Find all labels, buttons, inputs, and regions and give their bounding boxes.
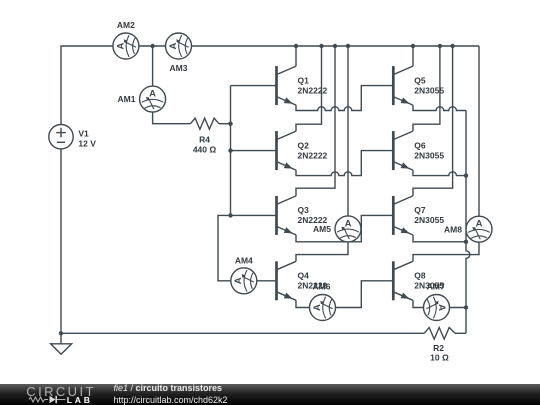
- wire: AM2 to AM3: [139, 45, 166, 47]
- ammeter AM6: [310, 295, 336, 321]
- node: base bus at Q2 base: [228, 148, 232, 152]
- transistor Q6: [393, 131, 413, 170]
- svg-text:AM2: AM2: [117, 20, 135, 30]
- wire: top supply rail from AM3 to right end: [191, 45, 479, 47]
- svg-text:LAB: LAB: [67, 395, 93, 405]
- footer title text: [114, 383, 223, 393]
- ammeter AM5: [335, 216, 361, 242]
- ammeter AM3: [166, 33, 192, 59]
- wire: Q6 emitter to emitter bus (hop over riser): [413, 170, 466, 176]
- wire: R2 right to emitter bus corner: [455, 332, 466, 334]
- ammeter AM8: [466, 216, 492, 242]
- svg-text:Q7: Q7: [414, 205, 426, 215]
- svg-text:12 V: 12 V: [78, 138, 96, 148]
- svg-text:AM7: AM7: [427, 282, 445, 292]
- wire: base bus vertical: [230, 86, 232, 216]
- wire: branch down from rail to AM1: [152, 46, 154, 86]
- wire: Q8 collector to AM8 bottom: [413, 242, 479, 261]
- ground symbol: [51, 344, 72, 355]
- node: rail junction Q5 collector: [411, 44, 415, 48]
- svg-text:Q6: Q6: [414, 140, 426, 150]
- svg-text:Q4: Q4: [298, 271, 310, 281]
- svg-text:440 Ω: 440 Ω: [193, 145, 217, 155]
- node: rail junction at AM1 branch: [150, 44, 154, 48]
- wire: Q2 collector riser to rail: [296, 46, 322, 131]
- ammeter AM2: [113, 33, 139, 59]
- wire: Q8 emitter to AM7 left: [413, 300, 424, 307]
- svg-text:Q2: Q2: [298, 140, 310, 150]
- svg-text:Q1: Q1: [298, 75, 310, 85]
- svg-text:10 Ω: 10 Ω: [430, 353, 449, 363]
- svg-text:2N2222: 2N2222: [298, 150, 328, 160]
- transistor Q8: [393, 261, 413, 300]
- node: emitter bus at Q7 emitter: [464, 240, 468, 244]
- node: rail junction Q1 collector: [294, 44, 298, 48]
- svg-text:AM6: AM6: [313, 282, 331, 292]
- svg-text:AM8: AM8: [444, 224, 462, 234]
- node: emitter bus at AM7: [464, 305, 468, 309]
- wire: Q3 collector riser to rail: [296, 46, 335, 196]
- svg-text:2N2222: 2N2222: [298, 85, 328, 95]
- wire: rail right end down to AM8 top: [478, 46, 480, 216]
- ammeter AM7: [424, 295, 450, 321]
- transistor Q1: [277, 66, 297, 105]
- svg-text:2N3055: 2N3055: [414, 215, 444, 225]
- svg-text:Q5: Q5: [414, 75, 426, 85]
- wire: Q1 collector to rail: [295, 46, 297, 66]
- CircuitLab logo: [0, 384, 110, 405]
- transistor Q5: [393, 66, 413, 105]
- transistor Q7: [393, 196, 413, 235]
- svg-text:R4: R4: [199, 135, 210, 145]
- wire: bus to Q1 base: [231, 85, 277, 87]
- wire: bus detour to AM4 left: [218, 215, 231, 280]
- svg-text:Q3: Q3: [298, 205, 310, 215]
- wire: AM4 right to Q4 base: [257, 280, 277, 282]
- wire: R4 right to base bus: [219, 123, 231, 125]
- node: rail junction Q3 riser: [333, 44, 337, 48]
- node: rail junction Q7 riser: [450, 44, 454, 48]
- svg-text:Q8: Q8: [414, 271, 426, 281]
- wire: Q7 collector riser to rail: [413, 46, 453, 196]
- wire: Q6 collector riser to rail: [413, 46, 440, 131]
- wire: rail riser down to AM5 top: [347, 46, 349, 216]
- wire: AM5 bottom to Q4 collector: [296, 242, 348, 261]
- node: ground junction: [59, 331, 63, 335]
- node: base bus at R4: [228, 122, 232, 126]
- footer bar: [0, 384, 540, 405]
- wire: ground stem: [60, 333, 62, 344]
- wire: AM6 right to Q8 base: [336, 281, 394, 308]
- wire: AM1 bottom to R4 left: [153, 112, 191, 124]
- wire: AM7 right to emitter bus: [450, 307, 467, 309]
- voltage source V1: [49, 125, 73, 149]
- svg-text:AM5: AM5: [313, 224, 331, 234]
- footer url text: [114, 395, 228, 405]
- ammeter AM1: [140, 86, 166, 112]
- node: emitter bus at Q6 emitter: [464, 173, 468, 177]
- wire: bus to Q2 base: [231, 150, 277, 152]
- svg-text:AM1: AM1: [118, 94, 136, 104]
- node: base bus at Q3 base: [228, 213, 232, 217]
- node: rail junction AM5 riser: [346, 44, 350, 48]
- resistor R2: [424, 328, 455, 340]
- ammeter AM4: [231, 268, 257, 294]
- wire: Q5 emitter to emitter bus (hops over two risers): [413, 105, 466, 110]
- wire: V1 bottom down to ground rail: [60, 149, 62, 333]
- wire: Q5 collector to rail: [412, 46, 414, 66]
- wire: emitter bus vertical (hops over Q8 collector wire) down to R2: [466, 111, 470, 334]
- wire: Q1 emitter to Q5 base (hops over three risers): [296, 86, 393, 111]
- wire: bus to Q3 base: [231, 214, 277, 216]
- transistor Q4: [277, 261, 297, 300]
- svg-text:AM3: AM3: [170, 63, 188, 73]
- wire: bottom ground rail: [61, 332, 424, 334]
- wire: V1 top up and right to AM2: [61, 46, 113, 125]
- wire: Q7 emitter to emitter bus: [413, 235, 466, 242]
- resistor R4: [190, 118, 219, 129]
- wire: Q2 emitter to Q6 base (hops over two risers): [296, 151, 393, 176]
- node: rail junction Q2 riser: [319, 44, 323, 48]
- transistor Q2: [277, 131, 297, 170]
- wire: Q3 emitter to Q7 base: [296, 215, 393, 241]
- svg-text:AM4: AM4: [235, 256, 253, 266]
- transistor Q3: [277, 196, 297, 235]
- svg-text:2N3055: 2N3055: [414, 85, 444, 95]
- node: rail junction Q6 riser: [438, 44, 442, 48]
- svg-text:2N3055: 2N3055: [414, 150, 444, 160]
- svg-text:R2: R2: [433, 343, 444, 353]
- svg-text:V1: V1: [78, 129, 89, 139]
- wire: Q4 emitter to AM6 left: [296, 300, 310, 307]
